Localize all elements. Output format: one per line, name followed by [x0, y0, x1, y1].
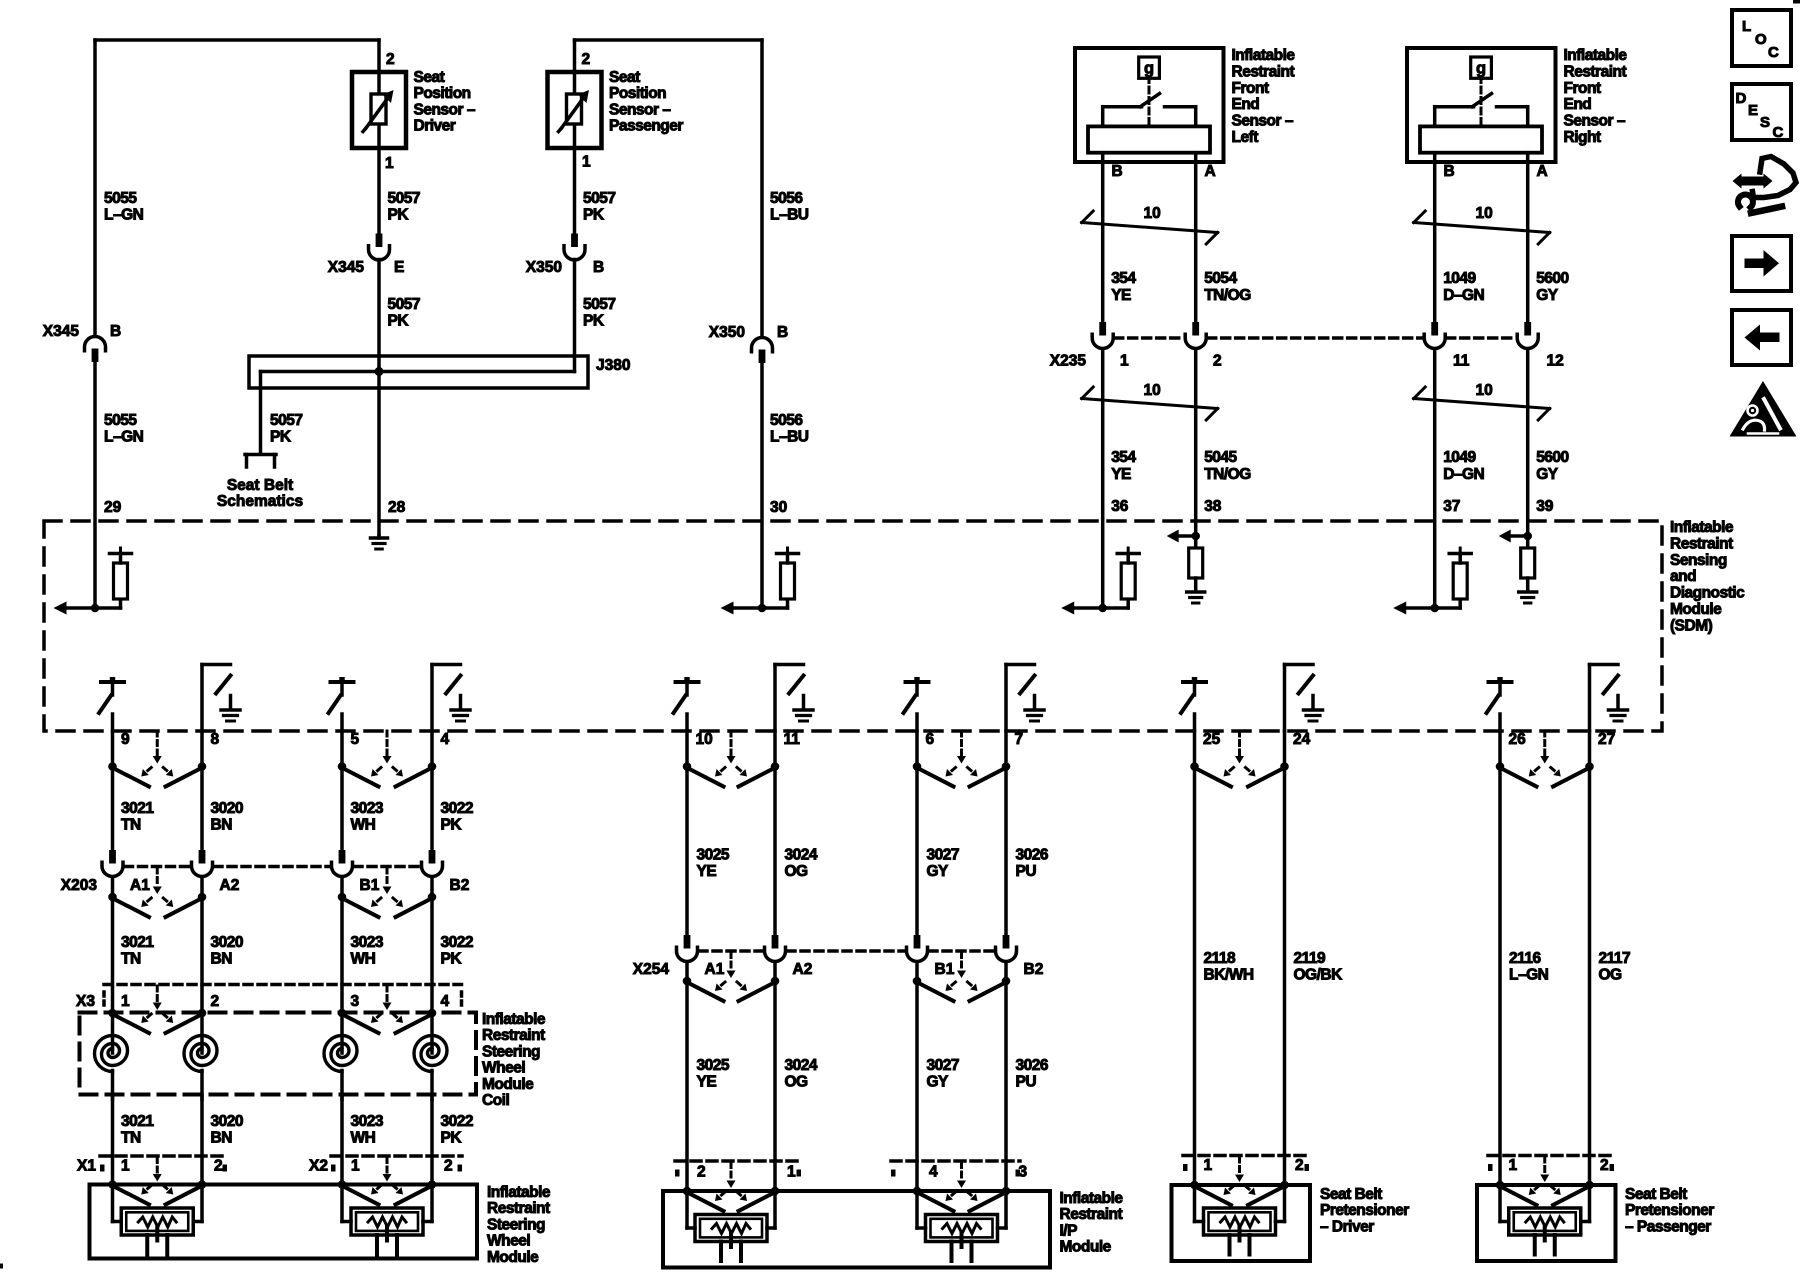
svg-text:Pretensioner: Pretensioner: [1320, 1202, 1409, 1219]
svg-text:1: 1: [1509, 1157, 1518, 1174]
label 5057 PK tap: [270, 412, 302, 446]
svg-text:L–BU: L–BU: [770, 429, 809, 446]
wires SDM to X203: [113, 731, 433, 850]
label 1049 D-GN upper: [1443, 270, 1484, 304]
label 5054 TN/OG: [1204, 270, 1251, 304]
svg-text:X235: X235: [1050, 353, 1087, 370]
svg-text:Restraint: Restraint: [1232, 63, 1295, 80]
svg-text:25: 25: [1203, 731, 1221, 748]
svg-text:3024: 3024: [785, 1057, 818, 1074]
svg-text:29: 29: [104, 499, 122, 516]
wire 5056 L-BU top run: [575, 40, 763, 337]
shorting bar at SDM connector pins 917: [913, 731, 1011, 787]
svg-text:Passenger: Passenger: [609, 118, 683, 135]
pin 30 label: [770, 499, 787, 516]
label 5045 TN/OG: [1204, 449, 1251, 483]
shorting bar at SDM connector pins 1500: [1496, 731, 1594, 787]
svg-text:Front: Front: [1232, 80, 1269, 97]
label 5056 L-BU upper: [770, 190, 809, 224]
SDM pin 29 pull-up resistor: [54, 548, 132, 615]
svg-text:X2: X2: [309, 1158, 328, 1175]
svg-text:Restraint: Restraint: [487, 1200, 550, 1217]
wire 5055 L-GN lower: [93, 362, 97, 608]
svg-text:3023: 3023: [351, 1113, 384, 1130]
pin labels X235: [1120, 353, 1564, 370]
pin 4 label IP: [929, 1164, 938, 1181]
wires SDM to X254: [687, 731, 1006, 935]
connector X203 pin A2: [192, 850, 213, 877]
shorting bar at pretensioner 1 connector: [1190, 1157, 1289, 1205]
label 5057 PK mid: [388, 296, 420, 330]
wires coil box to X1 X2: [113, 1095, 433, 1185]
shorting bar below X203 pair 2: [338, 868, 437, 917]
label 1049 D-GN lower: [1443, 449, 1484, 483]
svg-text:BN: BN: [211, 817, 233, 834]
svg-text:1049: 1049: [1443, 449, 1476, 466]
label 3026 PU above X254: [1016, 847, 1049, 881]
svg-text:11: 11: [1453, 353, 1470, 370]
pin A2 label X254: [793, 961, 813, 978]
svg-text:A1: A1: [130, 877, 150, 894]
svg-text:X350: X350: [709, 324, 745, 341]
wire 5045 TN/OG below X235: [1194, 349, 1198, 536]
label pretensioner passenger: [1625, 1186, 1714, 1235]
svg-text:OG: OG: [785, 1074, 809, 1091]
wire 5057 PK passenger sensor to X350: [573, 148, 577, 234]
wire 354 YE sensor left pin B: [1101, 162, 1105, 322]
label 3021 TN above X3: [121, 934, 154, 968]
connector X235 pin 1: [1092, 322, 1113, 349]
svg-text:OG/BK: OG/BK: [1294, 967, 1344, 984]
label 3026 PU below X254: [1016, 1057, 1049, 1091]
off-page connector seat belt schematics: [245, 455, 276, 468]
svg-text:37: 37: [1443, 498, 1460, 515]
label X345 E: [328, 259, 405, 276]
svg-text:1: 1: [121, 1158, 130, 1175]
svg-text:3026: 3026: [1016, 847, 1049, 864]
pin 4 label X3: [441, 993, 450, 1010]
svg-text:PK: PK: [441, 1130, 463, 1147]
svg-text:TN: TN: [121, 1130, 141, 1147]
svg-text:3023: 3023: [351, 934, 384, 951]
SDM pin 30 pull-up resistor: [721, 548, 799, 615]
label steering wheel module: [487, 1184, 551, 1266]
wire 5600 GY below X235: [1526, 349, 1530, 536]
svg-text:End: End: [1564, 96, 1592, 113]
svg-text:Module: Module: [482, 1076, 534, 1093]
pin 1 label pretensioner driver: [1204, 1157, 1213, 1174]
svg-text:3020: 3020: [211, 934, 243, 951]
svg-text:10: 10: [1144, 205, 1161, 222]
svg-text:GY: GY: [927, 863, 950, 880]
svg-text:YE: YE: [697, 863, 717, 880]
label steering wheel module coil: [482, 1011, 546, 1109]
wire 5057 PK tap to seat belt schematics: [259, 372, 263, 454]
pin 3 label IP: [1019, 1164, 1028, 1181]
pin B2 label X254: [1024, 961, 1044, 978]
svg-text:Steering: Steering: [482, 1043, 540, 1060]
connector row IP module: [675, 1161, 1020, 1177]
svg-text:26: 26: [1509, 731, 1527, 748]
svg-text:X345: X345: [43, 323, 80, 340]
label 3027 GY above X254: [927, 847, 959, 881]
svg-text:X203: X203: [61, 877, 98, 894]
label X350 B right: [709, 324, 788, 341]
svg-text:5055: 5055: [104, 190, 137, 207]
pin B2 label X203: [450, 877, 470, 894]
svg-text:2: 2: [444, 1158, 453, 1175]
pin 8 label: [211, 731, 220, 748]
svg-text:PK: PK: [388, 313, 410, 330]
pin 1 label IP: [787, 1164, 796, 1181]
SDM pin 38 resistor to ground: [1167, 530, 1205, 604]
connector X254 pin B2: [996, 935, 1017, 962]
label 3027 GY below X254: [927, 1057, 959, 1091]
connector X203 pin A1: [102, 850, 123, 877]
wire 354 YE below X235: [1101, 349, 1105, 608]
svg-text:O: O: [1755, 31, 1767, 48]
label 3022 PK above X3: [441, 934, 473, 968]
SDM deploy switch to ground pin 24: [1285, 665, 1323, 732]
connector X350 pin B upper: [564, 234, 585, 261]
svg-text:1049: 1049: [1443, 270, 1476, 287]
twisted pair marker 10 left lower: [1082, 387, 1218, 420]
label 5600 GY lower: [1536, 449, 1568, 483]
svg-text:10: 10: [1476, 382, 1493, 399]
wire 5056 L-BU lower: [760, 363, 764, 608]
label X3: [76, 993, 95, 1010]
splice pack J380: [249, 356, 588, 388]
SDM deploy switch to supply pin 6: [904, 677, 929, 731]
inflatable restraint front end sensor left: [1075, 48, 1224, 162]
connector X235 pin 2: [1185, 322, 1206, 349]
svg-text:J380: J380: [596, 357, 630, 374]
svg-text:Sensing: Sensing: [1670, 552, 1727, 569]
connector X203 link line: [125, 865, 421, 869]
svg-text:1: 1: [351, 1158, 360, 1175]
label 3025 YE above X254: [697, 847, 730, 881]
svg-text:X1: X1: [77, 1158, 96, 1175]
svg-text:28: 28: [388, 499, 406, 516]
svg-text:2116: 2116: [1509, 950, 1542, 967]
pin 9 label: [121, 731, 130, 748]
pin 1 label X3: [121, 993, 130, 1010]
SDM deploy switch to supply pin 25: [1181, 677, 1206, 731]
label SDM: [1670, 519, 1745, 634]
svg-text:Sensor –: Sensor –: [609, 101, 671, 118]
pin 1 label driver sensor: [385, 155, 394, 172]
svg-text:Sensor –: Sensor –: [1232, 113, 1294, 130]
svg-text:3025: 3025: [697, 847, 730, 864]
svg-text:Front: Front: [1564, 80, 1601, 97]
svg-text:g: g: [1144, 60, 1154, 78]
shorting bar at SDM connector pins 1194.5: [1190, 731, 1289, 787]
svg-text:7: 7: [1015, 731, 1024, 748]
svg-text:PK: PK: [270, 429, 292, 446]
label 5057 PK upper driver: [388, 190, 420, 224]
IP module box: [663, 1191, 1050, 1268]
label 3024 OG below X254: [785, 1057, 818, 1091]
pin 38 label: [1204, 498, 1222, 515]
svg-text:5057: 5057: [583, 296, 615, 313]
shorting bar at X3 pair 2: [338, 986, 437, 1033]
label front end sensor left: [1232, 47, 1296, 146]
svg-text:Position: Position: [414, 85, 471, 102]
seat position sensor driver B1: [352, 72, 406, 148]
svg-text:(SDM): (SDM): [1670, 617, 1713, 634]
SDM deploy switch to ground pin 8: [202, 665, 240, 732]
pin 2 label X1: [214, 1158, 223, 1175]
connector X203 pin B1: [332, 850, 353, 877]
svg-text:Module: Module: [1670, 601, 1722, 618]
svg-text:B2: B2: [450, 877, 470, 894]
svg-text:36: 36: [1111, 498, 1129, 515]
svg-text:Pretensioner: Pretensioner: [1625, 1202, 1714, 1219]
svg-text:TN/OG: TN/OG: [1204, 287, 1251, 304]
svg-text:3: 3: [351, 993, 360, 1010]
svg-text:2118: 2118: [1204, 950, 1237, 967]
label 3023 WH above X203: [351, 800, 384, 834]
svg-text:PU: PU: [1016, 863, 1037, 880]
SDM deploy switch to supply pin 10: [674, 677, 699, 731]
svg-text:B1: B1: [360, 877, 380, 894]
SDM deploy switch to supply pin 5: [329, 677, 354, 731]
svg-text:– Driver: – Driver: [1320, 1218, 1374, 1235]
svg-text:L–GN: L–GN: [104, 429, 144, 446]
svg-text:2: 2: [582, 51, 591, 68]
svg-text:5057: 5057: [270, 412, 302, 429]
svg-text:Right: Right: [1564, 129, 1601, 146]
shorting bar at IP connector pair 2: [913, 1163, 1011, 1212]
shorting bar below X254 pair 1: [683, 953, 780, 1002]
twisted pair marker 10 left upper: [1082, 211, 1218, 244]
svg-text:38: 38: [1204, 498, 1222, 515]
shorting bar at IP connector pair 1: [683, 1163, 780, 1212]
svg-text:OG: OG: [785, 863, 809, 880]
svg-text:TN: TN: [121, 951, 141, 968]
svg-text:B: B: [110, 323, 121, 340]
svg-text:PK: PK: [441, 817, 463, 834]
pin 6 label: [926, 731, 935, 748]
clockspring coil: [414, 1018, 447, 1100]
label 3023 WH above X1: [351, 1113, 384, 1147]
pin 29 label: [104, 499, 122, 516]
svg-text:5: 5: [351, 731, 360, 748]
wire 5055 L-GN top run: [95, 40, 379, 336]
svg-text:11: 11: [784, 731, 801, 748]
svg-text:Seat: Seat: [609, 69, 640, 86]
pin A2 label X203: [220, 877, 240, 894]
svg-text:5600: 5600: [1536, 270, 1568, 287]
label 3023 WH above X3: [351, 934, 384, 968]
connector X235 pin 11: [1424, 322, 1445, 349]
label 3020 BN above X3: [211, 934, 243, 968]
svg-text:5055: 5055: [104, 412, 137, 429]
connector X345 pin E: [369, 234, 390, 261]
pin 27 label: [1598, 731, 1615, 748]
wire 5600 GY sensor right pin A: [1526, 162, 1530, 322]
page artifact top-right: [1793, 0, 1800, 4]
svg-text:GY: GY: [927, 1074, 950, 1091]
svg-text:A: A: [1537, 163, 1548, 180]
label 5600 GY upper: [1536, 270, 1568, 304]
svg-text:Steering: Steering: [487, 1216, 545, 1233]
svg-text:Inflatable: Inflatable: [1564, 47, 1628, 64]
label 2116 L–GN: [1509, 950, 1549, 984]
svg-text:Schematics: Schematics: [217, 493, 303, 510]
svg-text:PK: PK: [583, 207, 605, 224]
svg-text:L: L: [1742, 18, 1751, 35]
svg-text:B: B: [1444, 163, 1455, 180]
svg-text:Restraint: Restraint: [1564, 63, 1627, 80]
svg-text:GY: GY: [1536, 287, 1559, 304]
seat position sensor passenger: [548, 72, 602, 148]
shorting bar at SDM connector pins 342: [338, 731, 437, 787]
shorting bar below X203 pair 1: [108, 868, 206, 917]
svg-text:12: 12: [1547, 353, 1564, 370]
svg-text:C: C: [1773, 124, 1784, 141]
svg-text:and: and: [1670, 568, 1696, 585]
svg-text:3024: 3024: [785, 847, 818, 864]
svg-text:X3: X3: [76, 993, 95, 1010]
svg-text:30: 30: [770, 499, 787, 516]
IP airbag squib 1: [687, 1191, 775, 1261]
svg-text:6: 6: [926, 731, 935, 748]
shorting bar below X254 pair 2: [913, 953, 1011, 1002]
wire 5057 PK X350 to J380: [573, 260, 577, 372]
svg-text:B: B: [1112, 163, 1123, 180]
svg-text:C: C: [1768, 44, 1779, 61]
svg-text:Seat Belt: Seat Belt: [227, 477, 293, 494]
label 2119 OG/BK: [1294, 950, 1344, 984]
label 5055 L-GN upper: [104, 190, 144, 224]
svg-text:– Passenger: – Passenger: [1625, 1218, 1711, 1235]
svg-text:WH: WH: [351, 1130, 376, 1147]
svg-text:39: 39: [1536, 498, 1554, 515]
pin 2 label passenger sensor: [582, 51, 591, 68]
svg-text:5057: 5057: [583, 190, 615, 207]
svg-text:2: 2: [214, 1158, 223, 1175]
SDM pin 37 pull-up resistor: [1393, 548, 1471, 615]
svg-text:Seat: Seat: [414, 69, 445, 86]
svg-text:D: D: [1736, 90, 1747, 107]
steering wheel coil dashed box: [80, 1013, 477, 1095]
shorting bar at SDM connector pins 112.5: [108, 731, 206, 787]
pin A label right sensor: [1537, 163, 1548, 180]
connector X254 pin A2: [765, 935, 786, 962]
svg-text:L–GN: L–GN: [1509, 967, 1549, 984]
svg-text:1: 1: [385, 155, 394, 172]
svg-text:3027: 3027: [927, 1057, 959, 1074]
svg-text:L–BU: L–BU: [770, 207, 809, 224]
svg-text:Restraint: Restraint: [1060, 1206, 1123, 1223]
svg-text:3025: 3025: [697, 1057, 730, 1074]
svg-text:3022: 3022: [441, 800, 473, 817]
pin 5 label: [351, 731, 360, 748]
pretensioner squib 2: [1500, 1185, 1590, 1255]
svg-text:YE: YE: [1111, 287, 1131, 304]
pin 24 label: [1293, 731, 1311, 748]
svg-text:Seat Belt: Seat Belt: [1625, 1186, 1687, 1203]
svg-text:3020: 3020: [211, 800, 243, 817]
svg-text:L–GN: L–GN: [104, 207, 144, 224]
svg-text:Coil: Coil: [482, 1092, 509, 1109]
label 2117 OG: [1599, 950, 1631, 984]
icon harness routing (arrows and wrench): [1733, 157, 1797, 214]
svg-text:Sensor –: Sensor –: [414, 101, 476, 118]
pin 1 label passenger sensor: [582, 154, 591, 171]
svg-text:10: 10: [1144, 382, 1161, 399]
svg-text:2119: 2119: [1294, 950, 1327, 967]
pin 25 label: [1203, 731, 1221, 748]
svg-text:Restraint: Restraint: [1670, 535, 1733, 552]
twisted pair marker 10 right lower: [1414, 387, 1550, 420]
pin 37 label: [1443, 498, 1460, 515]
label 354 YE lower: [1111, 449, 1136, 483]
svg-text:3: 3: [1019, 1164, 1028, 1181]
SDM pin 39 resistor to ground: [1499, 530, 1537, 604]
SDM module dashed border: [44, 521, 1662, 731]
label Seat Position Sensor Driver: [414, 69, 476, 135]
label X203: [61, 877, 98, 894]
connector X350 pin B right: [752, 338, 773, 364]
svg-text:2: 2: [211, 993, 220, 1010]
pin 11 label: [784, 731, 801, 748]
wire 5057 PK driver sensor to X345: [377, 148, 381, 234]
icon airbag caution triangle: [1730, 381, 1797, 437]
svg-text:PK: PK: [441, 951, 463, 968]
pin 2 label pretensioner passenger: [1600, 1157, 1609, 1174]
shorting bar at X2: [338, 1158, 437, 1205]
svg-text:g: g: [1476, 60, 1486, 78]
connector X235 link line: [1115, 336, 1516, 340]
svg-text:Module: Module: [487, 1249, 539, 1266]
svg-text:3023: 3023: [351, 800, 384, 817]
shorting bar at pretensioner 2 connector: [1496, 1157, 1594, 1205]
steering wheel module box: [90, 1185, 478, 1259]
svg-text:A2: A2: [793, 961, 813, 978]
SDM deploy switch to supply pin 26: [1487, 677, 1512, 731]
svg-text:PK: PK: [583, 313, 605, 330]
svg-text:Inflatable: Inflatable: [1670, 519, 1734, 536]
pin B1 label X254: [935, 961, 955, 978]
svg-text:End: End: [1232, 96, 1260, 113]
label X254: [633, 961, 670, 978]
svg-text:OG: OG: [1599, 967, 1623, 984]
svg-text:TN: TN: [121, 817, 141, 834]
label 5055 L-GN lower: [104, 412, 144, 446]
SDM deploy switch to ground pin 7: [1006, 665, 1044, 732]
svg-text:A1: A1: [705, 961, 725, 978]
svg-text:Inflatable: Inflatable: [1232, 47, 1296, 64]
svg-text:Sensor –: Sensor –: [1564, 113, 1626, 130]
pin 1 label pretensioner passenger: [1509, 1157, 1518, 1174]
SDM deploy switch to ground pin 27: [1590, 665, 1628, 732]
label 5057 PK upper passenger: [583, 190, 615, 224]
pin B label right sensor: [1444, 163, 1455, 180]
pin 2 label driver sensor: [386, 51, 395, 68]
svg-text:3022: 3022: [441, 1113, 473, 1130]
shorting bar at X1: [108, 1158, 206, 1205]
connector X345 pin B left: [85, 337, 106, 363]
svg-text:3027: 3027: [927, 847, 959, 864]
svg-text:24: 24: [1293, 731, 1311, 748]
svg-text:B: B: [593, 259, 604, 276]
svg-text:Position: Position: [609, 85, 666, 102]
svg-text:Seat Belt: Seat Belt: [1320, 1186, 1382, 1203]
pretensioner driver box: [1172, 1185, 1311, 1261]
label 3021 TN above X1: [121, 1113, 154, 1147]
